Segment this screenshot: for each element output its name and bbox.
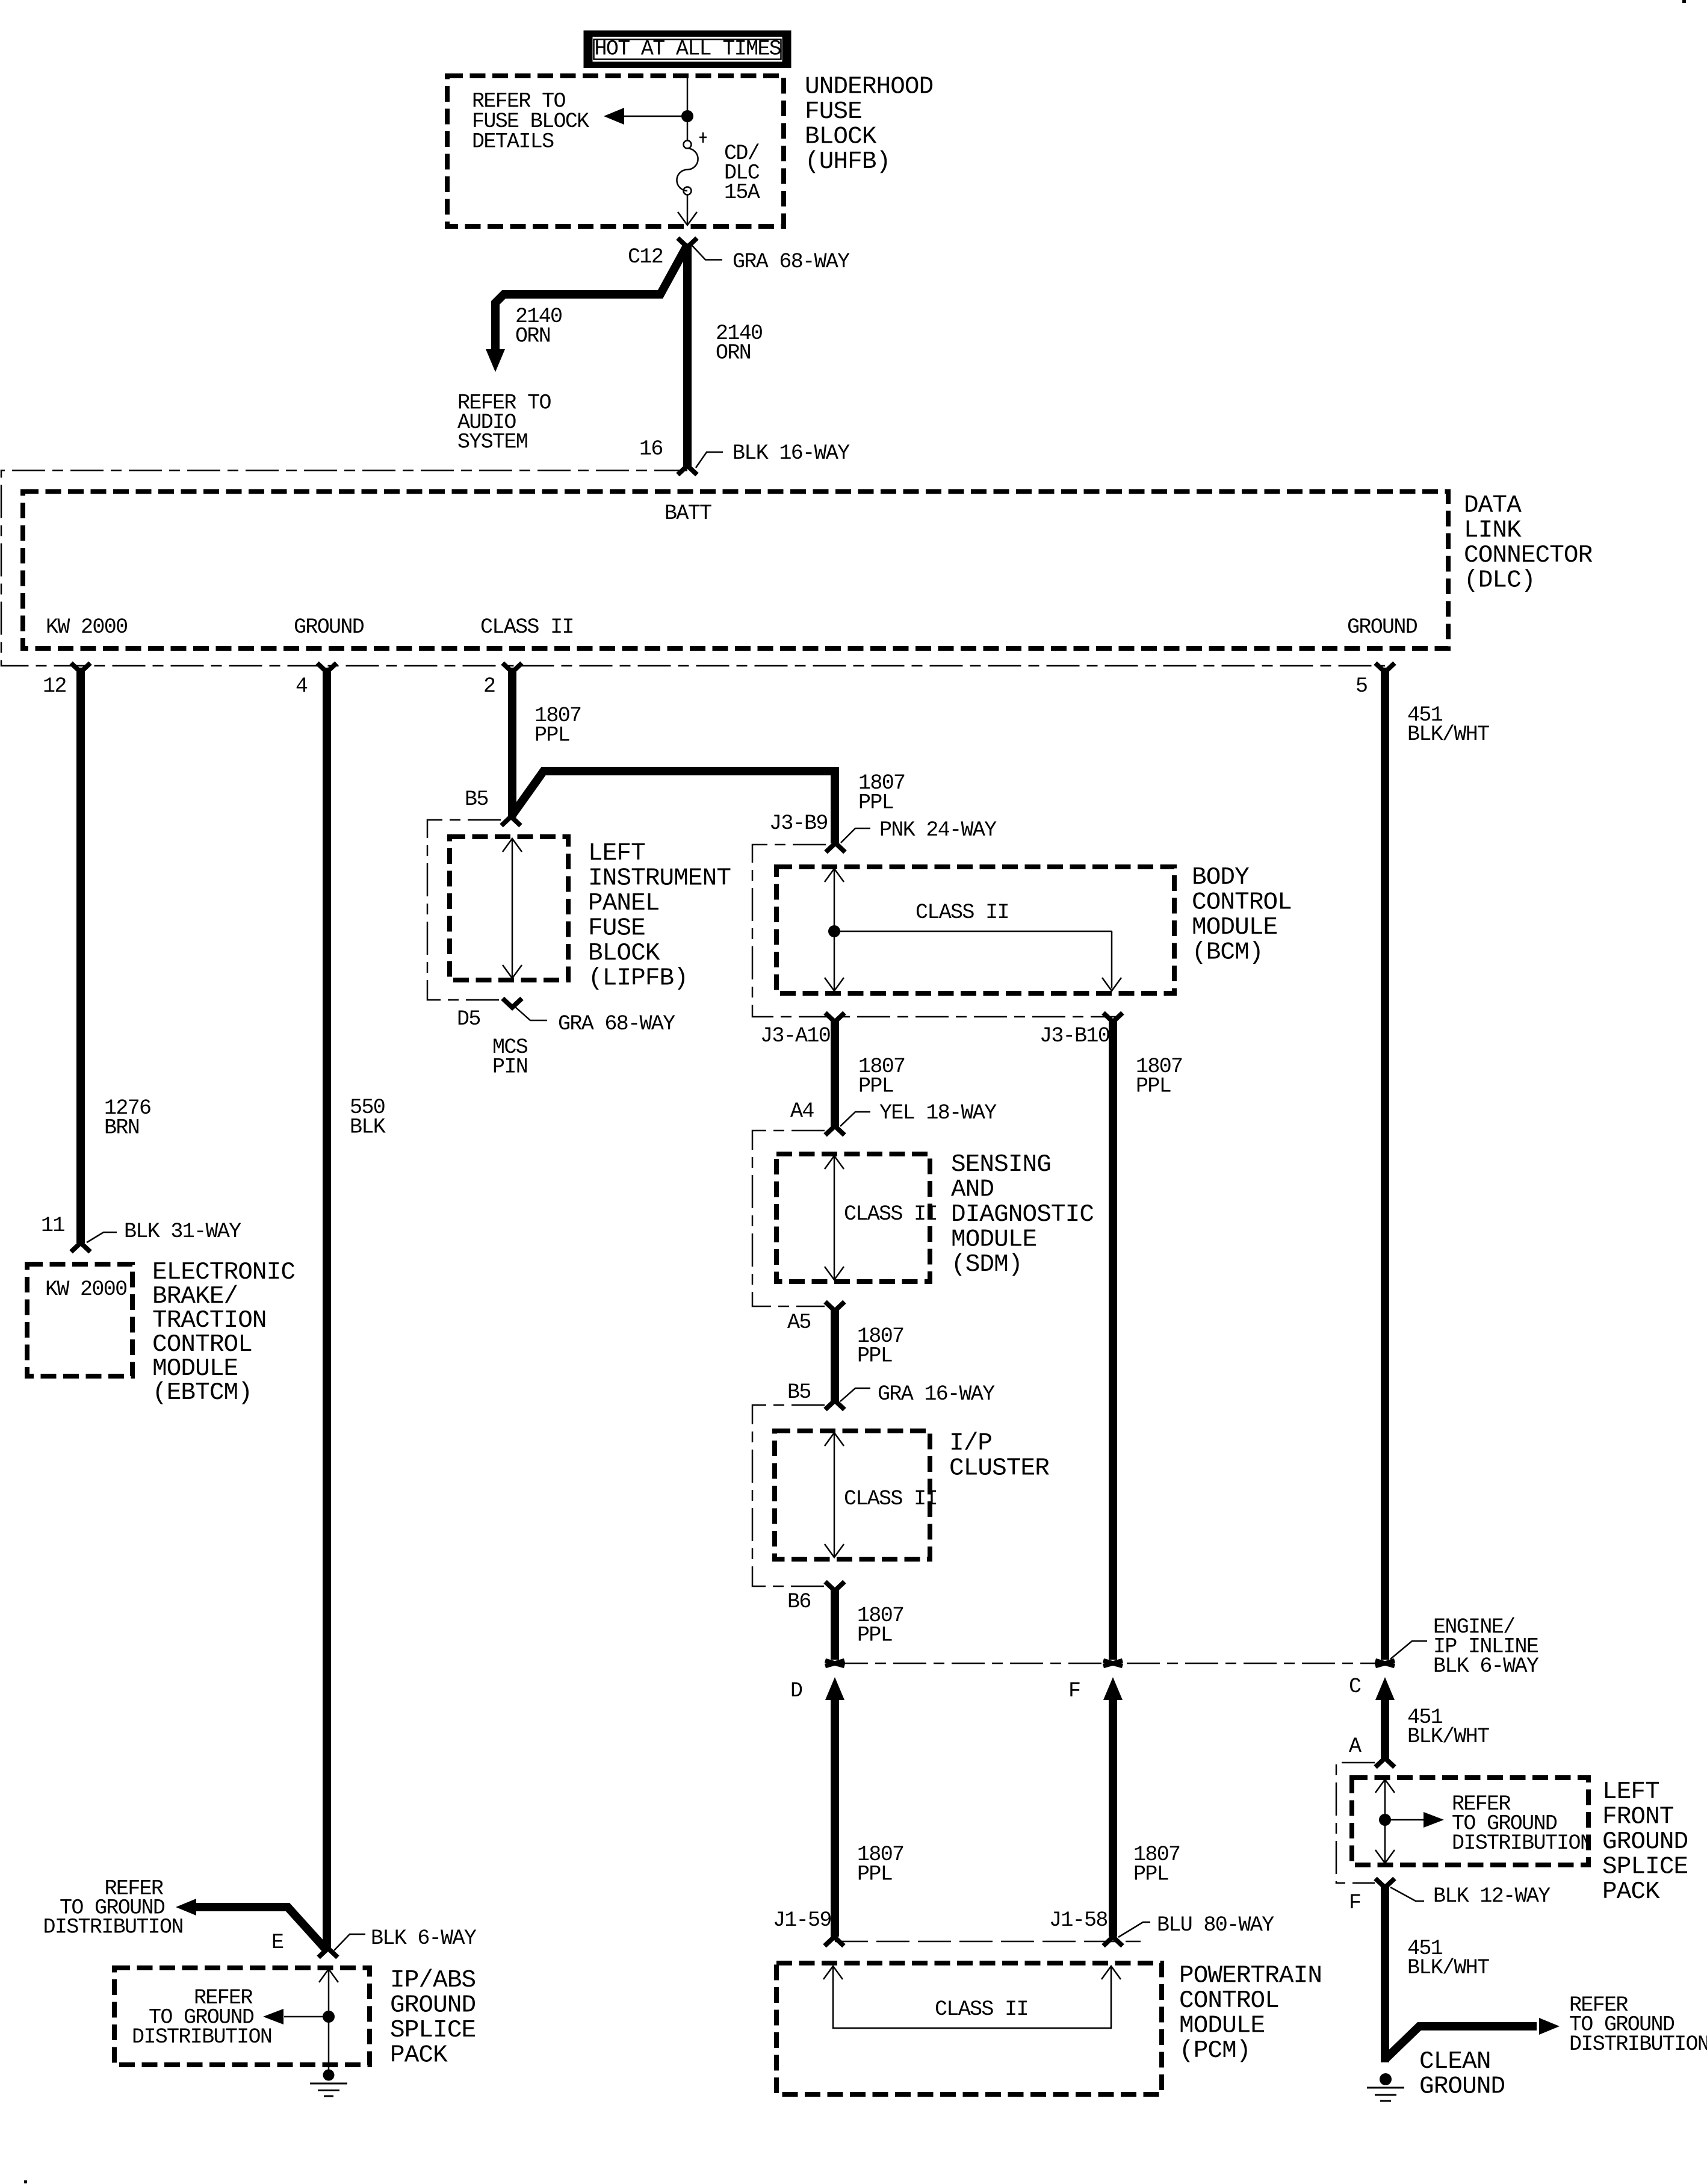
svg-text:PPL: PPL <box>1133 1863 1168 1887</box>
wire internal BCM horizontal to J3-B10 with arrow <box>834 931 1121 991</box>
fuse CD/DLC 15A symbol <box>677 132 707 195</box>
label pin 11 <box>41 1214 64 1238</box>
wire 2140 ORN vertical C12 to pin 16 <box>683 246 692 467</box>
svg-text:CLASS II: CLASS II <box>844 1487 937 1511</box>
label IP/ABS GROUND SPLICE PACK <box>390 1967 476 2070</box>
connector pin D crossing <box>825 1661 844 1666</box>
svg-text:16: 16 <box>639 437 663 461</box>
wire feed into fuse <box>687 78 689 140</box>
svg-text:BATT: BATT <box>665 501 711 526</box>
label pin B6 <box>787 1590 811 1614</box>
ground symbol clean ground <box>1367 2073 1404 2101</box>
svg-text:(PCM): (PCM) <box>1179 2037 1251 2065</box>
label pin D5 <box>457 1007 480 1031</box>
label CLASS II in PCM <box>935 1997 1028 2021</box>
svg-text:BLK/WHT: BLK/WHT <box>1407 722 1489 746</box>
svg-text:CLASS II: CLASS II <box>915 901 1009 925</box>
wire to ground distribution with arrow LFGSP <box>1385 1812 1444 1828</box>
corner tick top right <box>1682 0 1686 3</box>
leader GRA 16-WAY at B5 <box>840 1382 995 1406</box>
svg-text:J3-B9: J3-B9 <box>769 811 828 836</box>
label POWERTRAIN CONTROL MODULE (PCM) <box>1179 1962 1322 2065</box>
label pin 4 <box>296 674 308 698</box>
svg-text:F: F <box>1068 1679 1080 1703</box>
connector pin D5 crossing <box>503 999 522 1008</box>
svg-text:(BCM): (BCM) <box>1192 939 1263 967</box>
svg-text:FUSE: FUSE <box>805 98 862 126</box>
label 550 BLK <box>350 1096 386 1140</box>
underhood fuse block UHFB dashed box <box>447 76 784 226</box>
label 2140 ORN left branch <box>515 305 562 349</box>
connector pin B5 crossing IP cluster <box>825 1401 844 1410</box>
wire internal splice vertical LFGSP <box>1375 1779 1395 1863</box>
label LEFT INSTRUMENT PANEL FUSE BLOCK (LIPFB) <box>588 840 731 993</box>
electronic brake traction control module EBTCM dashed box <box>27 1264 132 1376</box>
svg-text:E: E <box>271 1931 283 1955</box>
label KW 2000 in EBTCM <box>45 1277 126 1301</box>
svg-text:DISTRIBUTION: DISTRIBUTION <box>43 1915 183 1939</box>
IP/ABS ground splice pack dashed box <box>114 1968 370 2065</box>
svg-text:BODY: BODY <box>1192 864 1249 892</box>
svg-text:CONNECTOR: CONNECTOR <box>1464 542 1593 569</box>
svg-text:GROUND: GROUND <box>1419 2073 1505 2101</box>
leader BLK 6-WAY at pin E <box>334 1926 477 1950</box>
leader GRA 68-WAY at D5 <box>514 1006 675 1036</box>
label pin J3-B9 <box>769 811 828 836</box>
label pin B5 LIPFB <box>465 787 488 811</box>
svg-text:B5: B5 <box>465 787 488 811</box>
leader YEL 18-WAY at A4 <box>840 1101 997 1126</box>
label CLASS II in IP cluster <box>844 1487 937 1511</box>
svg-text:I/P: I/P <box>949 1430 992 1457</box>
svg-text:SPLICE: SPLICE <box>1602 1854 1688 1881</box>
connector pin C crossing <box>1375 1661 1395 1666</box>
label MCS PIN <box>492 1035 528 1079</box>
connector pin 11 crossing <box>71 1243 90 1252</box>
label UNDERHOOD FUSE BLOCK (UHFB) <box>805 73 933 176</box>
label CLASS II in BCM <box>915 901 1009 925</box>
svg-text:MODULE: MODULE <box>951 1226 1036 1254</box>
label REFER TO GROUND DISTRIBUTION in LFGSP <box>1452 1792 1591 1855</box>
svg-text:KW 2000: KW 2000 <box>46 615 127 639</box>
svg-text:(EBTCM): (EBTCM) <box>152 1379 252 1407</box>
corner tick bottom left <box>24 2180 27 2183</box>
label 1807 PPL below B6 <box>857 1604 903 1648</box>
label pin B5 IP cluster <box>787 1380 811 1404</box>
connector pin A5 crossing <box>825 1302 844 1311</box>
leader BLK 12-WAY at F <box>1390 1884 1551 1908</box>
node splice junction LFGSP <box>1379 1814 1391 1826</box>
svg-text:BLK: BLK <box>350 1115 386 1140</box>
connector pin 16 crossing <box>678 466 697 475</box>
svg-text:(LIPFB): (LIPFB) <box>588 965 688 993</box>
svg-text:POWERTRAIN: POWERTRAIN <box>1179 1962 1322 1990</box>
svg-text:CONTROL: CONTROL <box>1192 889 1292 917</box>
wire to fuse block details with arrow <box>604 108 686 125</box>
BCM connector outline dash-dot <box>752 845 1117 1017</box>
leader BLK 16-WAY at pin 16 <box>696 441 850 468</box>
sensing and diagnostic module SDM dashed box <box>776 1154 930 1282</box>
wire 1807 PPL F to J1-58 with arrow <box>1103 1677 1123 1937</box>
label SENSING AND DIAGNOSTIC MODULE (SDM) <box>951 1151 1094 1279</box>
svg-text:CONTROL: CONTROL <box>1179 1987 1279 2015</box>
label pin J3-A10 <box>760 1024 830 1048</box>
connector pin 5 crossing <box>1375 663 1395 672</box>
wire internal splice vertical IP/ABS <box>319 1969 338 2070</box>
svg-text:BLK 31-WAY: BLK 31-WAY <box>124 1220 241 1244</box>
svg-text:F: F <box>1349 1891 1360 1915</box>
svg-text:DIAGNOSTIC: DIAGNOSTIC <box>951 1201 1094 1229</box>
label pin E <box>271 1931 283 1955</box>
wire internal IP cluster vertical with arrows <box>825 1433 844 1557</box>
svg-text:CLASS II: CLASS II <box>935 1997 1028 2021</box>
svg-text:15A: 15A <box>724 181 760 205</box>
connector pin J1-58 crossing <box>1103 1937 1123 1946</box>
wire to ground distribution with arrow IP/ABS <box>263 2009 329 2024</box>
svg-text:PIN: PIN <box>492 1055 527 1079</box>
svg-text:BLK 16-WAY: BLK 16-WAY <box>733 441 850 465</box>
svg-text:PPL: PPL <box>858 791 893 815</box>
svg-text:PPL: PPL <box>857 1624 892 1648</box>
svg-text:PANEL: PANEL <box>588 890 660 917</box>
label CLASS II pin function <box>480 615 574 639</box>
svg-text:DISTRIBUTION: DISTRIBUTION <box>1569 2032 1707 2056</box>
wire 1807 PPL J3-A10 to SDM <box>831 1019 839 1127</box>
label REFER TO GROUND DISTRIBUTION bottom right <box>1569 1993 1707 2056</box>
label BATT <box>665 501 711 526</box>
label pin 12 <box>43 674 66 698</box>
label DATA LINK CONNECTOR (DLC) <box>1464 492 1593 595</box>
svg-text:LINK: LINK <box>1464 517 1522 545</box>
label 451 BLK/WHT below pin 5 <box>1407 703 1489 746</box>
connector pin E crossing <box>318 1949 338 1958</box>
connector pin 2 crossing <box>503 663 522 672</box>
leader ENGINE/IP INLINE BLK 6-WAY <box>1390 1615 1539 1678</box>
wire 1807 PPL B6 to inline D <box>831 1590 839 1660</box>
label BODY CONTROL MODULE (BCM) <box>1192 864 1292 967</box>
label pin F inline <box>1068 1679 1080 1703</box>
svg-text:DETAILS: DETAILS <box>472 129 554 154</box>
label 451 BLK/WHT below C <box>1407 1705 1489 1749</box>
wire 451 BLK/WHT C to splice pack with arrow <box>1375 1677 1395 1759</box>
label 1807 PPL below A5 <box>857 1324 903 1368</box>
wire 1807 PPL A5 to IP cluster <box>831 1310 839 1401</box>
wire 1807 PPL J3-B10 to PCM F <box>1109 1019 1117 1660</box>
svg-text:UNDERHOOD: UNDERHOOD <box>805 73 933 101</box>
connector pin 4 crossing <box>317 663 336 672</box>
connector pin J1-59 crossing <box>825 1937 844 1946</box>
svg-text:CLASS II: CLASS II <box>844 1202 937 1226</box>
svg-text:DISTRIBUTION: DISTRIBUTION <box>1452 1831 1591 1855</box>
wire ground distribution branch right with arrow <box>1385 2018 1560 2059</box>
label CLEAN GROUND <box>1419 2048 1505 2101</box>
svg-text:2: 2 <box>483 674 495 698</box>
svg-text:ORN: ORN <box>515 324 550 349</box>
label pin D <box>790 1679 802 1703</box>
I/P cluster dashed box <box>775 1431 930 1559</box>
body control module BCM dashed box <box>776 867 1174 993</box>
label 1276 BRN <box>104 1096 150 1140</box>
label 1807 PPL below pin 2 <box>534 704 581 748</box>
svg-text:HOT AT ALL TIMES: HOT AT ALL TIMES <box>595 37 781 61</box>
node splice junction BCM <box>828 925 840 937</box>
SDM connector outline dash-dot <box>752 1131 825 1306</box>
svg-text:MODULE: MODULE <box>1192 914 1277 942</box>
svg-text:CLUSTER: CLUSTER <box>949 1455 1049 1483</box>
wire 1807 PPL pin 2 down <box>508 668 516 817</box>
connector pin C12 crossing <box>678 238 697 247</box>
label pin C <box>1349 1675 1361 1699</box>
label REFER TO FUSE BLOCK DETAILS <box>472 90 589 154</box>
svg-text:PPL: PPL <box>858 1075 893 1099</box>
svg-text:12: 12 <box>43 674 66 698</box>
svg-text:SPLICE: SPLICE <box>390 2017 476 2044</box>
node splice junction IP/ABS <box>323 2011 335 2023</box>
svg-text:BLK/WHT: BLK/WHT <box>1407 1725 1489 1749</box>
left front ground splice pack dashed box <box>1352 1778 1588 1865</box>
svg-text:CLEAN: CLEAN <box>1419 2048 1491 2076</box>
label pin J1-58 <box>1049 1908 1108 1932</box>
label pin F splice pack <box>1349 1891 1360 1915</box>
svg-text:INSTRUMENT: INSTRUMENT <box>588 865 731 893</box>
svg-text:(UHFB): (UHFB) <box>805 148 890 176</box>
label REFER TO GROUND DISTRIBUTION upper left <box>43 1876 183 1939</box>
wire internal SDM vertical with arrows <box>825 1156 844 1280</box>
label fuse CD/ DLC 15A <box>724 141 760 205</box>
svg-text:GROUND: GROUND <box>1347 615 1417 639</box>
label I/P CLUSTER <box>949 1430 1049 1483</box>
svg-text:D: D <box>790 1679 802 1703</box>
svg-text:BLK 6-WAY: BLK 6-WAY <box>371 1926 477 1950</box>
DLC connector outline dash-dot <box>1 471 1385 666</box>
connector pin J3-B10 crossing <box>1103 1013 1123 1022</box>
svg-text:5: 5 <box>1355 674 1367 698</box>
svg-text:PNK 24-WAY: PNK 24-WAY <box>879 818 997 842</box>
svg-text:A: A <box>1349 1734 1362 1758</box>
connector pin A4 crossing <box>825 1126 844 1135</box>
svg-text:PPL: PPL <box>857 1863 892 1887</box>
wire 550 BLK pin 4 to IP/ABS splice pack <box>323 668 331 1950</box>
svg-text:ORN: ORN <box>716 341 751 365</box>
label pin A5 <box>787 1311 811 1335</box>
svg-text:BLOCK: BLOCK <box>805 123 877 151</box>
svg-text:BLK/WHT: BLK/WHT <box>1407 1956 1489 1980</box>
wire 451 BLK/WHT pin 5 to inline C <box>1381 668 1389 1660</box>
svg-text:11: 11 <box>41 1214 64 1238</box>
wire 2140 ORN branch to audio system <box>486 244 688 372</box>
LIPFB connector outline dash-dot <box>427 820 501 1000</box>
label pin 5 <box>1355 674 1367 698</box>
svg-text:J1-59: J1-59 <box>773 1908 831 1932</box>
connector pin F crossing inline <box>1103 1661 1123 1666</box>
svg-text:PPL: PPL <box>534 724 569 748</box>
engine/IP inline connector line dash-dot <box>835 1663 1385 1664</box>
svg-text:GRA 68-WAY: GRA 68-WAY <box>733 250 850 274</box>
label pin 2 <box>483 674 495 698</box>
label C12 <box>628 245 663 269</box>
node HOT AT ALL TIMES power feed box <box>584 31 792 69</box>
left instrument panel fuse block LIPFB dashed box <box>450 837 568 980</box>
label 1807 PPL above J1-58 <box>1133 1843 1180 1887</box>
label pin A splice pack <box>1349 1734 1362 1758</box>
svg-text:BLOCK: BLOCK <box>588 940 660 967</box>
svg-text:BLU 80-WAY: BLU 80-WAY <box>1157 1913 1274 1937</box>
connector pin F crossing splice pack <box>1375 1879 1395 1888</box>
leader GRA 68-WAY at C12 <box>692 245 850 274</box>
svg-text:PPL: PPL <box>857 1344 892 1368</box>
svg-text:MODULE: MODULE <box>1179 2012 1265 2040</box>
svg-text:J1-58: J1-58 <box>1049 1908 1108 1932</box>
label 2140 ORN right branch <box>716 321 762 365</box>
wire internal PCM class II bracket <box>823 1966 1121 2028</box>
LFGSP connector outline dash-dot <box>1336 1763 1375 1883</box>
connector pin J3-B9 crossing <box>826 843 845 852</box>
svg-text:DISTRIBUTION: DISTRIBUTION <box>132 2025 271 2049</box>
svg-text:FRONT: FRONT <box>1602 1804 1674 1831</box>
label ELECTRONIC BRAKE/TRACTION CONTROL MODULE (EBTCM) <box>152 1259 295 1407</box>
svg-text:J3-B10: J3-B10 <box>1039 1024 1109 1048</box>
wire 1276 BRN pin 12 to EBTCM <box>76 668 85 1243</box>
svg-text:SYSTEM: SYSTEM <box>457 430 527 454</box>
label CLASS II in SDM <box>844 1202 937 1226</box>
leader BLU 80-WAY at J1-58 <box>1118 1913 1274 1937</box>
J1 connector line dashed <box>835 1941 1141 1943</box>
svg-text:C12: C12 <box>628 245 663 269</box>
label KW 2000 pin function <box>46 615 127 639</box>
label REFER TO GROUND DISTRIBUTION in IP/ABS <box>132 1986 271 2049</box>
svg-text:BLK 12-WAY: BLK 12-WAY <box>1433 1884 1551 1908</box>
label LEFT FRONT GROUND SPLICE PACK <box>1602 1778 1688 1906</box>
svg-text:D5: D5 <box>457 1007 480 1031</box>
svg-text:GRA 68-WAY: GRA 68-WAY <box>558 1012 675 1036</box>
connector pin 12 crossing <box>71 663 90 672</box>
svg-text:AND: AND <box>951 1176 994 1204</box>
svg-text:BRN: BRN <box>104 1116 139 1140</box>
label GROUND pin function <box>294 615 364 639</box>
wire internal BCM vertical with arrows <box>825 869 844 991</box>
svg-text:GROUND: GROUND <box>294 615 364 639</box>
label GROUND pin function right <box>1347 615 1417 639</box>
connector pin A crossing <box>1375 1758 1395 1767</box>
svg-text:LEFT: LEFT <box>1602 1778 1659 1806</box>
svg-text:FUSE: FUSE <box>588 915 645 943</box>
svg-text:(DLC): (DLC) <box>1464 567 1535 595</box>
label pin 16 <box>639 437 663 461</box>
svg-text:PPL: PPL <box>1136 1075 1171 1099</box>
svg-text:LEFT: LEFT <box>588 840 645 867</box>
wire 451 BLK/WHT F to clean ground <box>1381 1887 1389 2062</box>
svg-text:PACK: PACK <box>390 2042 448 2070</box>
svg-text:A5: A5 <box>787 1311 811 1335</box>
svg-text:CLASS II: CLASS II <box>480 615 574 639</box>
leader BLK 31-WAY at pin 11 <box>87 1220 241 1244</box>
svg-text:(SDM): (SDM) <box>951 1251 1023 1279</box>
svg-text:GRA 16-WAY: GRA 16-WAY <box>878 1382 995 1406</box>
svg-text:GROUND: GROUND <box>390 1992 476 2020</box>
label 1807 PPL above J1-59 <box>857 1843 903 1887</box>
label pin J1-59 <box>773 1908 831 1932</box>
leader PNK 24-WAY at J3-B9 <box>841 818 997 843</box>
svg-text:BLK 6-WAY: BLK 6-WAY <box>1433 1654 1539 1678</box>
wire ground distribution branch with arrow <box>176 1899 327 1950</box>
svg-text:B5: B5 <box>787 1380 811 1404</box>
wire internal LIPFB vertical with arrows <box>503 839 522 978</box>
data link connector DLC dashed box <box>23 492 1448 649</box>
svg-text:DATA: DATA <box>1464 492 1522 520</box>
svg-text:YEL 18-WAY: YEL 18-WAY <box>879 1101 997 1125</box>
node splice junction in UHFB <box>681 110 693 122</box>
powertrain control module PCM dashed box <box>776 1963 1162 2094</box>
svg-text:GROUND: GROUND <box>1602 1828 1688 1856</box>
label 1807 PPL right of branch <box>858 771 905 815</box>
svg-text:C: C <box>1349 1675 1361 1699</box>
svg-text:SENSING: SENSING <box>951 1151 1051 1179</box>
wire 1807 PPL branch to BCM J3-B9 <box>512 771 835 843</box>
connector pin J3-A10 crossing <box>825 1013 844 1022</box>
svg-text:IP/ABS: IP/ABS <box>390 1967 476 1994</box>
label 1807 PPL below J3-A10 <box>858 1055 905 1099</box>
wire 1807 PPL D to J1-59 with arrow <box>825 1677 844 1937</box>
svg-text:J3-A10: J3-A10 <box>760 1024 830 1048</box>
svg-text:4: 4 <box>296 674 308 698</box>
label REFER TO AUDIO SYSTEM <box>457 391 551 454</box>
wire fuse output with open arrow <box>678 194 697 225</box>
label 1807 PPL below J3-B10 <box>1136 1055 1182 1099</box>
svg-text:PACK: PACK <box>1602 1878 1660 1906</box>
label 451 BLK/WHT below F <box>1407 1937 1489 1980</box>
label pin J3-B10 <box>1039 1024 1109 1048</box>
IP cluster connector outline dash-dot <box>752 1405 825 1586</box>
svg-text:A4: A4 <box>790 1099 814 1123</box>
svg-text:B6: B6 <box>787 1590 811 1614</box>
label pin A4 <box>790 1099 814 1123</box>
ground symbol IP/ABS <box>310 2070 347 2097</box>
svg-text:KW 2000: KW 2000 <box>45 1277 126 1301</box>
connector pin B6 crossing <box>825 1582 844 1591</box>
connector pin B5 crossing LIPFB <box>501 817 521 826</box>
